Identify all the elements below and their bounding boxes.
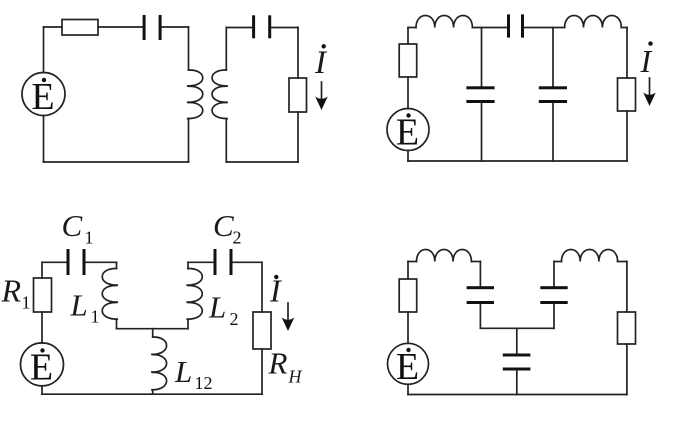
wire bottom 2 [408, 160, 627, 162]
label L2 [208, 290, 239, 330]
label I1 [314, 44, 328, 81]
label I2 [640, 41, 653, 79]
center stem bottom [516, 371, 518, 395]
capacitor C1b [252, 15, 271, 38]
svg-text:1: 1 [85, 228, 94, 248]
wire resistor to top [407, 262, 409, 280]
wire resistor to top [407, 28, 409, 45]
capacitor C2s (series) [507, 14, 524, 37]
wire resistor to cap [98, 26, 143, 28]
wire cap to node2 [524, 27, 565, 29]
wire L2 to C2 [188, 261, 214, 263]
resistor R1 [34, 278, 52, 312]
source E1 [22, 73, 65, 119]
shunt capacitor C2p1 [466, 86, 494, 103]
wire right vertical bottom [297, 112, 299, 162]
current arrow 3 [282, 303, 295, 331]
wire cap to transformer [162, 26, 189, 28]
transformer primary winding [187, 70, 203, 119]
wire bottom 3 [42, 393, 262, 395]
svg-text:R: R [268, 346, 288, 381]
wire secondary vertical top [225, 28, 227, 71]
svg-text:2: 2 [230, 309, 239, 329]
svg-text:L: L [208, 290, 226, 325]
wire cap to right [271, 27, 298, 29]
resistor R (series) [62, 20, 98, 36]
wire bottom primary loop [44, 161, 189, 163]
wire right vertical top [626, 28, 628, 79]
wire primary vertical top [188, 27, 190, 70]
svg-text:1: 1 [22, 293, 31, 313]
svg-text:L: L [174, 354, 192, 389]
inductor L2b [565, 16, 622, 28]
svg-text:C: C [213, 208, 234, 243]
label C1 [62, 208, 94, 248]
resistor R4 [399, 279, 417, 312]
load resistor 2 [618, 78, 636, 111]
svg-text:E: E [31, 76, 54, 118]
current arrow 2 [643, 78, 656, 106]
svg-text:2: 2 [233, 228, 242, 248]
wire right vertical bottom [261, 349, 263, 394]
wire secondary vertical bottom [225, 119, 227, 162]
transformer secondary winding [212, 70, 228, 119]
wire top left [44, 26, 63, 28]
svg-text:E: E [396, 112, 419, 154]
wire C2 to right [233, 261, 263, 263]
wire top corner [408, 27, 416, 29]
source E2 [387, 109, 429, 154]
inductor L4a [417, 250, 472, 262]
svg-text:L: L [70, 288, 88, 323]
svg-text:12: 12 [195, 373, 213, 393]
inductor L1 [102, 262, 118, 328]
wire secondary top left [226, 27, 252, 29]
current arrow 1 [315, 82, 328, 110]
wire to right corner [618, 261, 627, 263]
capacitor C2 [214, 249, 233, 275]
inductor L2 [187, 262, 203, 328]
wire bottom secondary loop [226, 161, 298, 163]
svg-text:H: H [288, 367, 303, 387]
capacitor C4a [467, 286, 494, 304]
wire source bottom [407, 151, 409, 162]
wire coil bottoms [117, 328, 189, 330]
capacitor C4b [540, 286, 567, 304]
label R1 [1, 273, 31, 313]
load resistor RH [253, 312, 271, 349]
wire source to bottom [41, 386, 43, 394]
wire to right corner [621, 27, 627, 29]
capacitor C1 [67, 249, 86, 275]
wire right top corner [554, 261, 562, 263]
wire right to center [517, 327, 554, 329]
svg-text:R: R [1, 273, 22, 309]
load resistor [289, 78, 307, 112]
svg-text:I: I [640, 43, 653, 79]
wire right vertical top [261, 262, 263, 312]
node1 stem top [481, 28, 483, 87]
wire C1 to L1 [86, 261, 117, 263]
label L1 [70, 288, 100, 327]
wire resistor to source [41, 312, 43, 343]
wire right vertical bottom [626, 111, 628, 161]
stem right cap top [553, 262, 555, 287]
wire right vertical top [297, 28, 299, 79]
label I3 [269, 273, 282, 309]
wire to node1 [472, 27, 507, 29]
inductor L12 [151, 329, 166, 395]
stem left cap bottom [479, 304, 481, 328]
shunt capacitor C2p2 [539, 86, 567, 103]
wire bottom 4 [408, 394, 627, 396]
node1 stem bottom [481, 103, 483, 161]
wire left vertical bottom [43, 116, 45, 163]
wire top corner 4 [408, 261, 417, 263]
inductor L2a [416, 16, 472, 28]
svg-text:E: E [30, 347, 53, 389]
node2 stem top [552, 28, 554, 87]
label C2 [213, 208, 242, 248]
wire to corner [471, 261, 480, 263]
label RH [268, 346, 303, 387]
svg-text:E: E [396, 346, 419, 388]
wire left vertical top [41, 262, 43, 278]
resistor R2 [399, 44, 417, 77]
stem right cap bottom [553, 304, 555, 328]
wire left to center [480, 327, 516, 329]
stem left cap top [479, 262, 481, 287]
wire right vertical top [626, 262, 628, 313]
label L12 [174, 354, 213, 393]
center stem top [516, 328, 518, 353]
wire source bottom 4 [407, 384, 409, 394]
wire source to resistor [407, 77, 409, 109]
svg-text:C: C [62, 208, 83, 243]
wire top to C1 [42, 261, 67, 263]
wire left vertical top [43, 27, 45, 73]
load resistor 4 [618, 312, 636, 344]
svg-text:I: I [314, 45, 328, 81]
inductor L4b [562, 250, 618, 262]
wire source to resistor [407, 312, 409, 343]
wire right vertical bottom [626, 344, 628, 395]
svg-text:1: 1 [91, 307, 100, 327]
source E3 [21, 343, 64, 389]
capacitor C4c [503, 354, 531, 371]
node2 stem bottom [552, 103, 554, 161]
source E4 [388, 343, 429, 388]
wire primary vertical bottom [188, 119, 190, 162]
capacitor C1a [143, 15, 162, 40]
